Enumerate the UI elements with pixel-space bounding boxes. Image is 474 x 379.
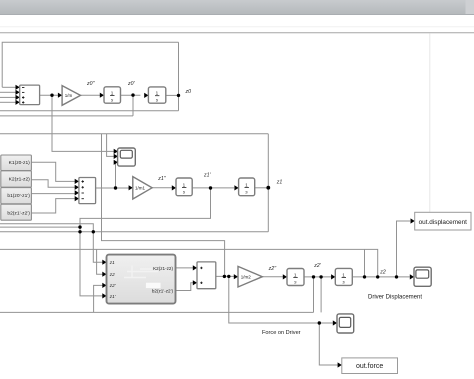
gain 1/m2 xyxy=(238,266,262,287)
wire block out K2 xyxy=(176,267,194,269)
wire z1 vertical xyxy=(267,134,269,232)
wire scope input2 xyxy=(107,134,114,157)
scope force xyxy=(337,314,354,333)
svg-text:z1'': z1'' xyxy=(157,176,166,182)
wire z0' down xyxy=(132,95,134,116)
svg-text:z2': z2' xyxy=(313,263,321,269)
svg-text:Force on Driver: Force on Driver xyxy=(262,330,301,336)
wire out.displacement feed xyxy=(397,221,411,277)
wire bus 227 xyxy=(0,226,80,228)
wire integrator z0' out xyxy=(166,94,179,96)
svg-text:z1': z1' xyxy=(203,172,211,178)
toolbar bar xyxy=(0,0,474,14)
svg-text:1: 1 xyxy=(245,182,248,187)
svg-text:1/m: 1/m xyxy=(65,93,73,98)
svg-text:z1': z1' xyxy=(109,294,116,299)
wire sum m0 input 4 xyxy=(0,101,16,103)
wire K2 to sum m1 in2 xyxy=(32,180,76,188)
wire z2' into block xyxy=(94,285,105,312)
svg-text:z2': z2' xyxy=(109,283,116,288)
wire z0 wrap left xyxy=(0,110,179,112)
svg-text:1: 1 xyxy=(183,182,186,187)
svg-text:out.force: out.force xyxy=(356,363,383,370)
wire b1 to sum m1 in3 xyxy=(32,193,76,195)
svg-text:Driver Displacement: Driver Displacement xyxy=(368,295,422,301)
wire z1 wrap left xyxy=(0,133,268,135)
faint separator xyxy=(0,26,474,28)
svg-text:b2(z1'-z2'): b2(z1'-z2') xyxy=(7,210,30,216)
wire z0 vertical right xyxy=(178,42,180,111)
svg-text:1/m2: 1/m2 xyxy=(241,275,252,280)
Fcn block K1 xyxy=(1,155,32,171)
svg-text:K1(z0-z1): K1(z0-z1) xyxy=(9,160,31,166)
wire z2' down taps xyxy=(313,277,315,313)
wire z2'' integ out xyxy=(304,276,331,278)
sum block m2 xyxy=(197,262,216,289)
svg-text:z1: z1 xyxy=(109,260,115,265)
wire sum m0 input 3 xyxy=(0,96,16,98)
wire force route xyxy=(229,276,333,323)
svg-text:1: 1 xyxy=(342,272,345,277)
toolbar lower separator line xyxy=(0,32,474,34)
sum block m0 xyxy=(20,85,40,105)
scope Driver Displacement xyxy=(414,267,431,286)
svg-text:z0': z0' xyxy=(127,81,135,87)
out.force block xyxy=(342,358,398,374)
out.displacement block xyxy=(415,212,471,230)
wire z2 feedback vertical xyxy=(364,249,366,277)
wire gain m2 out xyxy=(262,276,283,278)
wire z0' wrap left xyxy=(0,115,133,117)
svg-text:1: 1 xyxy=(156,91,159,96)
Fcn block b2 xyxy=(1,204,32,220)
wire sum m0 input 1 xyxy=(2,86,16,88)
wire z0 feedback top xyxy=(2,42,178,87)
integrator 5 (1/s) xyxy=(287,269,304,286)
svg-text:1: 1 xyxy=(294,273,297,278)
wire z2 feedback long xyxy=(0,249,378,277)
wire scope input3 from z1'' junction xyxy=(114,162,116,188)
wire z0'' down to scope xyxy=(52,95,114,151)
subsystem big block xyxy=(107,255,176,304)
svg-text:out.displacement: out.displacement xyxy=(419,219,468,226)
wire sum m0 output xyxy=(40,94,58,96)
svg-text:z0: z0 xyxy=(185,89,192,95)
wire b2 to sum m1 in4 xyxy=(32,199,76,213)
gain 1/m xyxy=(62,86,80,106)
svg-text:z0'': z0'' xyxy=(86,81,95,87)
wire sum m0 input 2 xyxy=(0,91,16,93)
svg-text:1: 1 xyxy=(111,91,114,96)
svg-text:b2(z1'-z2'): b2(z1'-z2') xyxy=(152,289,174,294)
wire long vertical to z2 bus xyxy=(102,134,225,277)
svg-text:b1(z0'-z1'): b1(z0'-z1') xyxy=(7,193,30,199)
scope 1 xyxy=(118,148,136,166)
integrator 2 (1/s) xyxy=(148,87,165,103)
wire K1 to sum m1 in1 xyxy=(32,162,76,181)
arrowheads xyxy=(16,85,415,368)
wire gain m0 to integrator xyxy=(81,94,101,96)
subsystem ghost preview xyxy=(124,266,158,278)
integrator 1 (1/s) xyxy=(104,87,121,103)
wire block out b2 xyxy=(176,283,194,291)
svg-text:z2: z2 xyxy=(109,272,115,277)
svg-text:K2(z1-z2): K2(z1-z2) xyxy=(9,177,31,183)
wire integrator z0'' out xyxy=(121,94,141,96)
wire z2 row out xyxy=(352,276,409,278)
svg-text:z2: z2 xyxy=(379,270,386,276)
wire gain m1 to integrator xyxy=(152,187,172,189)
Fcn block K2 xyxy=(1,171,32,187)
integrator 6 (1/s) xyxy=(335,268,352,285)
wire sum m1 output xyxy=(96,187,130,189)
wire z1' out xyxy=(192,187,234,189)
wire to out.force xyxy=(319,323,337,365)
wire faint annotation vertical xyxy=(429,34,431,213)
integrator 4 (1/s) xyxy=(239,178,255,196)
Fcn block b1 xyxy=(1,188,32,204)
wire z2 into block xyxy=(97,249,105,274)
sum block m1 xyxy=(79,178,96,204)
wire bus 232 z1 xyxy=(0,231,268,233)
svg-text:z1: z1 xyxy=(276,180,283,186)
wire z1 out xyxy=(255,187,269,189)
wire z1' feedback down xyxy=(80,188,211,296)
gain 1/m1 xyxy=(133,177,152,199)
integrator 3 (1/s) xyxy=(176,178,192,196)
svg-text:z2'': z2'' xyxy=(268,266,277,272)
svg-text:K2(z1-z2): K2(z1-z2) xyxy=(153,266,173,271)
wire sum m2 out xyxy=(216,275,234,277)
wire z2' wrap left xyxy=(0,311,314,313)
wire bus 223 xyxy=(0,224,104,262)
svg-text:1/m1: 1/m1 xyxy=(135,186,146,191)
